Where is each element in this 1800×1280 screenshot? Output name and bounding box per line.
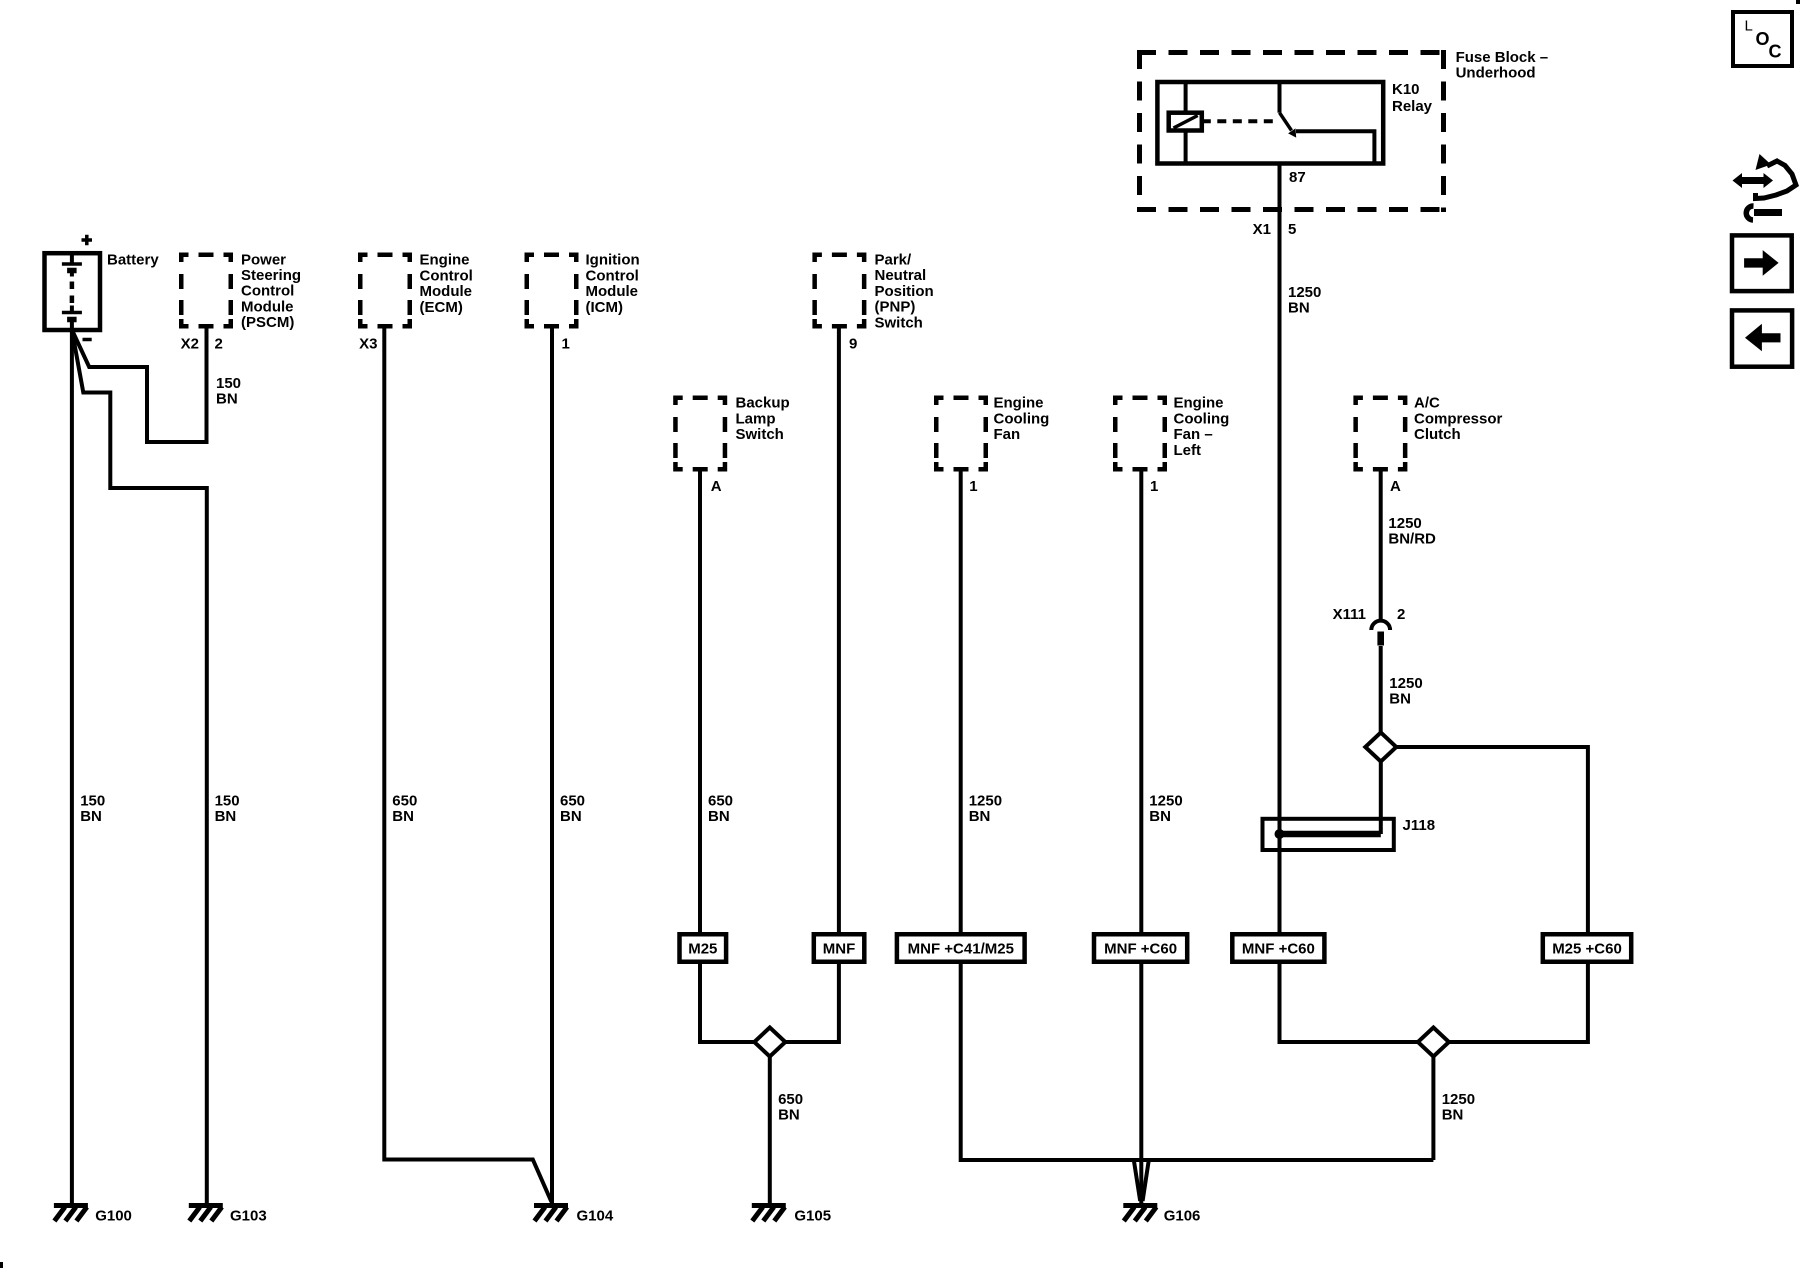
module ECM dashed box	[360, 255, 410, 327]
navigation swoosh icon with double arrow and wrench	[1733, 154, 1797, 220]
svg-text:X111: X111	[1333, 606, 1366, 623]
connector box MNF +C60 left	[1094, 934, 1187, 962]
wire splice diamond 2 to G106 bus (1250 BN)	[1431, 1057, 1435, 1161]
svg-text:650: 650	[392, 792, 417, 809]
wire MNF connector to splice diamond	[785, 960, 839, 1042]
svg-text:MNF +C60: MNF +C60	[1242, 940, 1315, 957]
svg-text:G105: G105	[794, 1207, 831, 1224]
svg-text:Control: Control	[586, 267, 639, 284]
svg-text:Ignition: Ignition	[586, 252, 640, 269]
svg-text:O: O	[1756, 29, 1770, 49]
svg-text:MNF +C60: MNF +C60	[1104, 940, 1177, 957]
svg-text:BN: BN	[708, 808, 730, 825]
wire backup lamp switch pin A to M25 connector (650 BN)	[698, 472, 702, 936]
svg-text:Module: Module	[420, 283, 473, 300]
module PSCM dashed box	[181, 255, 231, 327]
wire X111 to splice diamond 1 (1250 BN)	[1379, 646, 1383, 733]
svg-text:Fan: Fan	[994, 426, 1021, 443]
svg-text:1250: 1250	[969, 792, 1002, 809]
svg-text:87: 87	[1289, 169, 1306, 186]
svg-text:J118: J118	[1403, 817, 1436, 834]
wire engine cooling fan left pin 1 to MNF +C60 connector (1250 BN)	[1139, 472, 1143, 936]
wire MNF +C60 connector to splice diamond 2	[1280, 960, 1418, 1042]
ground G100	[54, 1206, 88, 1222]
wire M25 connector to splice diamond	[700, 960, 754, 1042]
wire A/C compressor clutch pin A to X111 (1250 BN/RD)	[1379, 472, 1383, 622]
svg-text:A: A	[1390, 478, 1401, 495]
svg-text:Control: Control	[241, 283, 294, 300]
svg-text:A: A	[711, 478, 722, 495]
connector box MNF +C60 right	[1232, 934, 1324, 962]
svg-text:Fuse Block –: Fuse Block –	[1456, 49, 1549, 66]
G106 funnel diagonal right	[1143, 1160, 1149, 1201]
ground G105	[752, 1206, 786, 1222]
wire M25 +C60 connector to splice diamond 2	[1449, 960, 1588, 1042]
wire battery negative to G103 (150 BN)	[72, 330, 207, 1203]
svg-text:K10: K10	[1392, 81, 1420, 98]
svg-text:M25 +C60: M25 +C60	[1552, 940, 1622, 957]
svg-text:Module: Module	[586, 283, 639, 300]
svg-text:Lamp: Lamp	[736, 410, 776, 427]
svg-text:150: 150	[80, 792, 105, 809]
svg-text:BN: BN	[216, 391, 238, 408]
J118 bus bar	[1277, 831, 1381, 838]
relay coil terminal line	[1184, 82, 1188, 164]
svg-text:Backup: Backup	[736, 395, 790, 412]
connector box M25 +C60	[1543, 934, 1631, 962]
LOC icon box	[1733, 12, 1792, 66]
battery	[45, 253, 101, 330]
svg-text:1250: 1250	[1388, 515, 1421, 532]
splice diamond (650 BN to G105)	[754, 1028, 785, 1057]
svg-text:1: 1	[562, 335, 570, 352]
module A/C compressor clutch dashed box	[1356, 398, 1406, 470]
svg-text:1: 1	[969, 478, 977, 495]
svg-text:(PSCM): (PSCM)	[241, 314, 294, 331]
svg-text:X3: X3	[359, 335, 377, 352]
svg-text:BN: BN	[560, 808, 582, 825]
connector box MNF +C41/M25	[897, 934, 1025, 962]
relay switch arm	[1280, 113, 1292, 131]
svg-text:X1: X1	[1253, 221, 1271, 238]
module engine cooling fan dashed box	[936, 398, 986, 470]
module backup lamp switch dashed box	[675, 398, 725, 470]
back arrow icon box	[1732, 310, 1792, 366]
battery plus sign	[82, 235, 93, 246]
relay K10 box	[1157, 82, 1383, 164]
svg-text:Compressor: Compressor	[1414, 410, 1503, 427]
svg-text:BN: BN	[80, 808, 102, 825]
svg-text:Engine: Engine	[1174, 395, 1224, 412]
page corner tick top right	[1796, 0, 1800, 4]
splice diamond 2 (1250 BN)	[1418, 1028, 1449, 1057]
G106 funnel diagonal left	[1134, 1160, 1140, 1201]
svg-text:BN: BN	[215, 808, 237, 825]
inline connector X111	[1371, 621, 1390, 630]
svg-text:Neutral: Neutral	[875, 267, 927, 284]
battery minus sign	[83, 338, 92, 342]
relay NO contact	[1296, 131, 1374, 163]
ground G104	[534, 1206, 568, 1222]
splice diamond 1 (1250 BN)	[1365, 733, 1396, 762]
svg-text:150: 150	[216, 375, 241, 392]
relay dashed actuation link	[1202, 119, 1275, 123]
wire PNP pin 9 to MNF connector	[837, 329, 841, 936]
fuse block underhood dashed box	[1137, 50, 1446, 55]
wire MNF +C60 connector to G106	[1139, 960, 1143, 1203]
svg-text:1: 1	[1150, 478, 1158, 495]
svg-text:1250: 1250	[1389, 675, 1422, 692]
svg-text:MNF +C41/M25: MNF +C41/M25	[908, 940, 1014, 957]
svg-text:A/C: A/C	[1414, 395, 1440, 412]
module PNP switch dashed box	[815, 255, 865, 327]
svg-text:Module: Module	[241, 298, 294, 315]
svg-text:Engine: Engine	[420, 252, 470, 269]
svg-text:BN: BN	[1442, 1106, 1464, 1123]
svg-text:Position: Position	[875, 283, 934, 300]
svg-text:G103: G103	[230, 1207, 267, 1224]
svg-text:BN: BN	[1288, 299, 1310, 316]
svg-text:BN: BN	[1389, 690, 1411, 707]
svg-text:G106: G106	[1164, 1207, 1201, 1224]
svg-text:150: 150	[215, 792, 240, 809]
svg-text:L: L	[1745, 18, 1753, 35]
connector box MNF	[814, 934, 865, 962]
module engine cooling fan left dashed box	[1115, 398, 1165, 470]
svg-text:BN: BN	[969, 808, 991, 825]
svg-text:(ICM): (ICM)	[586, 299, 624, 316]
relay coil	[1169, 113, 1202, 131]
svg-text:Underhood: Underhood	[1456, 64, 1536, 81]
junction block J118	[1263, 819, 1394, 850]
svg-text:(PNP): (PNP)	[875, 299, 916, 316]
svg-text:C: C	[1769, 42, 1782, 62]
svg-text:Relay: Relay	[1392, 98, 1433, 115]
svg-text:1250: 1250	[1288, 284, 1321, 301]
wire ECM X3 to G104 (650 BN)	[384, 329, 551, 1203]
svg-text:Left: Left	[1174, 442, 1202, 459]
relay switch common terminal	[1278, 82, 1282, 113]
svg-text:Switch: Switch	[875, 314, 923, 331]
svg-text:1250: 1250	[1442, 1091, 1475, 1108]
svg-text:650: 650	[560, 792, 585, 809]
J118 junction dot	[1275, 829, 1285, 839]
svg-text:2: 2	[215, 335, 223, 352]
svg-text:Switch: Switch	[736, 426, 784, 443]
svg-text:Power: Power	[241, 251, 286, 268]
ground G106	[1123, 1206, 1157, 1222]
svg-text:Fan –: Fan –	[1174, 426, 1213, 443]
wire battery negative to PSCM pin 2 (150 BN)	[72, 329, 207, 443]
wire MNF +C41/M25 connector to G106 horizontal bus	[961, 960, 1434, 1160]
connector box M25	[680, 934, 727, 962]
svg-text:BN: BN	[1149, 808, 1171, 825]
svg-text:Clutch: Clutch	[1414, 426, 1461, 443]
ground G103	[189, 1206, 223, 1222]
svg-text:650: 650	[708, 792, 733, 809]
svg-text:Cooling: Cooling	[994, 410, 1050, 427]
svg-text:Battery: Battery	[107, 252, 159, 269]
svg-text:Park/: Park/	[875, 252, 913, 269]
wire battery negative to G100	[70, 329, 74, 1204]
svg-text:9: 9	[849, 335, 857, 352]
svg-text:Steering: Steering	[241, 267, 301, 284]
splice to G105 wire (650 BN)	[768, 1057, 772, 1204]
wire relay pin 87 / X1-5 down through J118 to MNF +C60 connector (1250 BN)	[1278, 133, 1282, 935]
page edge tick bottom left	[0, 1262, 3, 1268]
svg-text:Engine: Engine	[994, 395, 1044, 412]
svg-text:650: 650	[778, 1091, 803, 1108]
module ICM dashed box	[527, 255, 577, 327]
svg-text:5: 5	[1288, 221, 1296, 238]
svg-text:BN: BN	[778, 1106, 800, 1123]
svg-text:M25: M25	[688, 940, 717, 957]
svg-text:BN/RD: BN/RD	[1388, 530, 1436, 547]
wire engine cooling fan pin 1 to MNF +C41/M25 connector (1250 BN)	[959, 472, 963, 936]
svg-text:Cooling: Cooling	[1174, 410, 1230, 427]
svg-text:Control: Control	[420, 267, 473, 284]
svg-text:(ECM): (ECM)	[420, 299, 463, 316]
wire ICM pin 1 to G104 (650 BN)	[550, 329, 554, 1204]
svg-text:X2: X2	[181, 335, 199, 352]
svg-text:BN: BN	[392, 808, 414, 825]
svg-text:G104: G104	[577, 1207, 614, 1224]
svg-text:G100: G100	[95, 1207, 132, 1224]
wire splice diamond 1 right to M25 +C60 connector	[1396, 747, 1588, 935]
svg-text:1250: 1250	[1149, 792, 1182, 809]
svg-text:MNF: MNF	[823, 940, 856, 957]
wire splice diamond 1 down to J118	[1379, 762, 1383, 835]
forward arrow icon box	[1732, 235, 1792, 291]
svg-text:2: 2	[1397, 606, 1405, 623]
